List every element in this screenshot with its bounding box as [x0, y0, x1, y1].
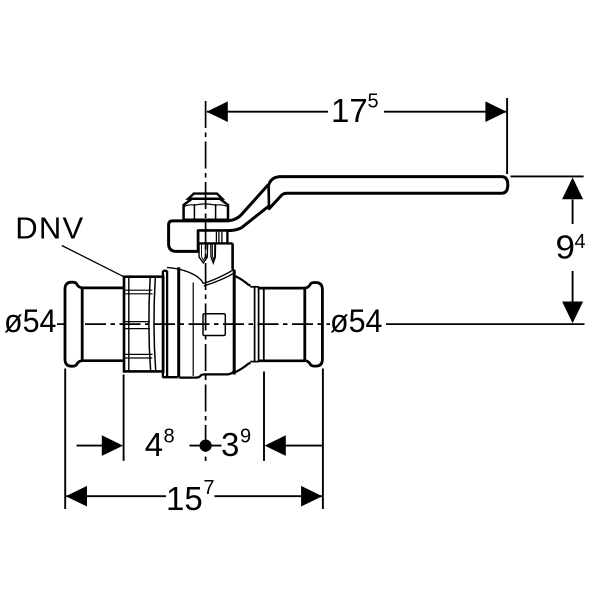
- dimension 17.5 arrows: [207, 101, 228, 122]
- svg-text:9: 9: [556, 229, 576, 266]
- dimension 4.8 arrow and tail: [77, 445, 103, 447]
- union nut face line: [128, 277, 130, 372]
- extension line right socket face: [263, 372, 265, 461]
- body right edge: [233, 270, 236, 375]
- horizontal centerline through valve: [85, 323, 330, 325]
- svg-text:4: 4: [575, 231, 586, 253]
- dimension 17.5 line: [207, 98, 507, 174]
- port square mark: [203, 314, 225, 336]
- right taper ridge lines: [255, 287, 259, 362]
- union nut internal bore lines: [125, 290, 153, 358]
- dimension 9.4 line: [572, 200, 574, 303]
- hex nut facet lines: [184, 204, 227, 220]
- dimension mid segment: [190, 445, 222, 447]
- svg-text:DNV: DNV: [15, 211, 84, 246]
- svg-text:ø54: ø54: [330, 303, 383, 339]
- dimension 9.4 extension line: [511, 175, 584, 177]
- DNV leader line: [62, 246, 124, 277]
- svg-text:5: 5: [368, 91, 379, 113]
- svg-text:15: 15: [166, 480, 203, 517]
- body inner vertical line: [192, 283, 194, 377]
- left bead inner line: [81, 288, 83, 360]
- body top shoulder curves: [167, 267, 236, 286]
- svg-text:9: 9: [240, 426, 251, 448]
- dimension 15.7 arrows: [66, 486, 87, 507]
- handle lever with bracket: [169, 177, 508, 252]
- dimension 15.7 line: [66, 495, 322, 497]
- svg-text:3: 3: [221, 426, 239, 463]
- dimension 9.4 arrows: [562, 178, 583, 200]
- svg-text:7: 7: [203, 477, 214, 499]
- horizontal centerline stub left: [57, 323, 66, 325]
- right body taper: [235, 276, 259, 372]
- vertical stem centerline: [205, 101, 207, 461]
- body bottom edge: [179, 371, 234, 377]
- right socket tube: [259, 288, 305, 361]
- left socket tube: [82, 288, 124, 361]
- stem fork left prong: [199, 244, 208, 263]
- svg-text:17: 17: [331, 92, 368, 129]
- right socket face line: [263, 288, 265, 361]
- neck collar: [227, 243, 232, 269]
- stem cap: [188, 194, 222, 199]
- union nut: [124, 277, 163, 372]
- extension line right bead: [322, 369, 324, 510]
- left press socket bead: [65, 282, 82, 366]
- stem fork right prong: [211, 244, 216, 263]
- dimension 3.9 arrow and tail: [265, 435, 286, 456]
- extension line left bead: [64, 369, 66, 510]
- handle bend crease: [267, 185, 270, 209]
- center reference dot: [200, 440, 212, 452]
- right press socket bead: [305, 283, 323, 367]
- packing gland flange: [198, 231, 227, 244]
- valve body backing: [177, 267, 235, 378]
- union nut hex flat curves: [149, 278, 156, 371]
- gland facet lines: [216, 232, 222, 243]
- body left collar rings: [162, 271, 178, 378]
- svg-text:ø54: ø54: [4, 303, 57, 339]
- svg-text:8: 8: [164, 426, 175, 448]
- right bead inner line: [304, 288, 306, 360]
- svg-text:4: 4: [145, 426, 163, 463]
- stem hex nut: [184, 199, 228, 220]
- horizontal centerline right: [386, 323, 585, 325]
- extension line nut face: [123, 375, 125, 461]
- body left edge: [177, 267, 180, 377]
